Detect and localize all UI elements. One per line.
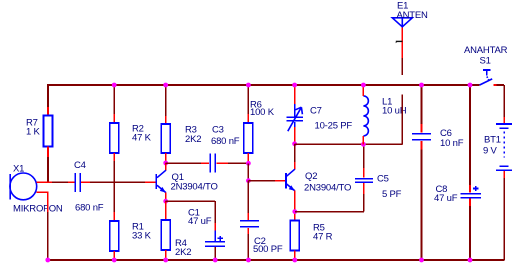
svg-text:33 K: 33 K — [132, 231, 152, 242]
wire L1 bottom lead — [362, 136, 364, 144]
svg-text:47 K: 47 K — [132, 133, 152, 144]
label E1 — [397, 1, 429, 22]
resistor R3 — [161, 124, 170, 153]
resistor R7 — [44, 116, 53, 147]
label C8 — [434, 184, 458, 204]
wire Q2 collector — [294, 144, 296, 170]
svg-text:500 PF: 500 PF — [253, 244, 283, 255]
svg-text:2N3904/TO: 2N3904/TO — [171, 182, 218, 193]
wire top rail — [48, 84, 480, 86]
node dot Q2 emitter — [292, 209, 297, 214]
label R3 value — [185, 125, 201, 146]
wire antenna feed up — [401, 94, 403, 144]
wire mic upper lead to C4 — [37, 181, 75, 183]
node dot R6 bottom / C3 junction — [246, 161, 251, 166]
label X1 — [13, 164, 24, 175]
node dot C8 bottom rail — [468, 258, 473, 263]
svg-text:1 K: 1 K — [26, 127, 41, 138]
wire C4 right to Q1 base — [81, 181, 156, 183]
resistor R2 — [110, 123, 119, 153]
wire bottom rail — [48, 259, 505, 261]
wire R7 bottom lead to mic node — [47, 147, 49, 184]
node dot C2 bottom rail — [246, 258, 251, 263]
svg-text:5 PF: 5 PF — [382, 189, 402, 200]
microphone X1 — [10, 173, 37, 200]
node dot R4 bottom rail — [163, 258, 168, 263]
svg-text:X1: X1 — [13, 164, 24, 175]
label R7 value — [26, 118, 41, 138]
wire R6 bottom lead — [247, 153, 249, 163]
wire mic lower lead down to bottom rail — [37, 192, 48, 261]
svg-text:47 uF: 47 uF — [434, 193, 458, 204]
node dot C1 bottom rail — [213, 258, 218, 263]
label C4 value — [75, 202, 104, 213]
wire C6 top lead — [421, 85, 423, 133]
wire R3 top lead — [165, 85, 167, 124]
wire R2 bottom through cross to R1 — [113, 153, 115, 221]
wire tank horizontal — [295, 143, 403, 145]
antenna E1 — [392, 18, 412, 27]
wire R1 bottom lead — [113, 251, 115, 260]
node dot Q2 base junction — [246, 178, 251, 183]
node dot C8 top rail — [468, 83, 473, 88]
label BT1 — [483, 135, 501, 157]
label C1 — [188, 208, 212, 228]
wire battery bottom lead — [503, 171, 505, 260]
resistor R1 — [110, 221, 119, 251]
label ANAHTAR — [464, 45, 508, 67]
node dot R3 top rail — [163, 83, 168, 88]
capacitor C7 variable — [286, 107, 302, 131]
wire Q1 emitter to R4 — [165, 201, 167, 220]
label Q1 — [171, 172, 218, 193]
svg-text:MIKROFON: MIKROFON — [13, 204, 63, 215]
label C2 — [253, 236, 283, 255]
label R4 value — [175, 238, 191, 258]
node dot C6 bottom rail — [419, 258, 424, 263]
wire base node down to C2 — [247, 181, 249, 220]
node dot R1 bottom rail — [112, 258, 117, 263]
wire R6 top lead — [247, 85, 249, 123]
svg-text:680 nF: 680 nF — [211, 136, 240, 147]
label R2 value — [132, 124, 152, 144]
label MIKROFON — [13, 204, 63, 215]
svg-text:C4: C4 — [74, 160, 86, 171]
wire C1 bottom lead — [214, 247, 216, 260]
svg-text:2N3904/TO: 2N3904/TO — [304, 183, 351, 194]
svg-text:9 V: 9 V — [483, 146, 498, 157]
svg-text:47 R: 47 R — [313, 232, 333, 243]
label C5 — [377, 174, 402, 201]
wire junction down to base node — [247, 163, 249, 180]
svg-text:2K2: 2K2 — [185, 134, 201, 145]
wire C7 bottom lead — [294, 122, 296, 144]
node dot C7 bottom / tank node — [292, 141, 297, 146]
capacitor C6 — [412, 134, 431, 140]
svg-text:Q2: Q2 — [305, 171, 317, 182]
label Q2 — [304, 171, 351, 194]
resistor R6 — [244, 123, 253, 153]
wire C8 top lead — [469, 85, 471, 193]
capacitor C5 — [355, 179, 373, 183]
wire C6 bottom lead — [421, 141, 423, 260]
wire C7 top lead — [294, 85, 296, 117]
transistor Q1 — [156, 163, 166, 201]
node dot R5 bottom rail — [292, 258, 297, 263]
node dot Q1 emitter — [163, 199, 168, 204]
label C7 — [310, 106, 352, 132]
node dot L1 bottom — [361, 142, 366, 147]
label R5 value — [313, 223, 333, 243]
svg-text:ANAHTAR: ANAHTAR — [464, 45, 508, 56]
svg-text:C3: C3 — [212, 125, 224, 136]
transistor Q2 — [286, 169, 295, 191]
svg-text:S1: S1 — [480, 56, 491, 67]
svg-text:680 nF: 680 nF — [75, 202, 104, 213]
wire C2 bottom lead — [247, 228, 249, 260]
node dot L1 top rail — [361, 83, 366, 88]
node dot mic bottom rail corner — [45, 258, 50, 263]
inductor L1 — [363, 96, 368, 136]
svg-text:C7: C7 — [310, 106, 322, 117]
svg-text:C5: C5 — [377, 174, 389, 185]
wire antenna lead — [401, 27, 403, 75]
wire L1 top lead — [362, 85, 364, 96]
capacitor C2 — [240, 221, 259, 227]
label C6 — [440, 128, 464, 149]
resistor R5 — [290, 221, 299, 251]
wire collector node to C3 — [166, 162, 209, 164]
label R6 value — [250, 99, 275, 118]
label C3 — [211, 125, 240, 148]
node dot C7 top rail — [292, 83, 297, 88]
wire base node to Q2 base — [248, 180, 285, 182]
capacitor C8 electrolytic — [460, 186, 480, 198]
wire emitter node to C1 — [166, 201, 216, 231]
wire R2 top lead — [113, 85, 115, 123]
svg-text:47 uF: 47 uF — [188, 216, 212, 227]
label L1 — [382, 97, 407, 117]
wire C3 right to R6 node — [216, 162, 248, 164]
wire R7 drop from top rail corner — [47, 84, 49, 115]
node dot R6 top rail — [246, 83, 251, 88]
wire R4 bottom lead — [165, 250, 167, 260]
capacitor C4 — [75, 173, 80, 192]
label C4 — [74, 160, 86, 171]
node dot R2 top rail — [112, 83, 117, 88]
svg-text:BT1: BT1 — [484, 135, 501, 146]
svg-text:ANTEN: ANTEN — [397, 10, 429, 21]
wire R3 bottom lead to collector node — [165, 153, 167, 163]
pin 1 label — [395, 41, 402, 43]
svg-text:10 nF: 10 nF — [440, 138, 464, 149]
svg-text:2K2: 2K2 — [175, 247, 191, 258]
svg-text:100 K: 100 K — [250, 107, 275, 118]
wire C8 bottom lead — [469, 199, 471, 260]
node dot Q1 collector — [163, 161, 168, 166]
wire Q2 emitter down to R5 — [294, 191, 296, 221]
label R1 value — [132, 222, 152, 242]
switch S1 — [480, 70, 497, 85]
capacitor C1 electrolytic — [205, 231, 225, 247]
wire C5 top lead to tank wire — [363, 144, 365, 177]
resistor R4 — [161, 220, 170, 250]
battery BT1 — [496, 124, 512, 170]
wire R5 bottom lead — [294, 251, 296, 261]
wire switch to battery — [497, 85, 505, 123]
wire emitter node right to C5 bottom — [295, 183, 364, 212]
capacitor C3 — [210, 154, 215, 173]
node dot C6 top rail — [419, 83, 424, 88]
svg-text:10-25 PF: 10-25 PF — [315, 121, 353, 132]
